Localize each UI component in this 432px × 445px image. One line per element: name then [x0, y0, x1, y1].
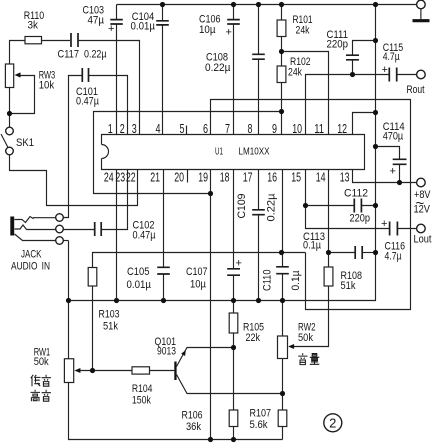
- svg-text:24: 24: [104, 171, 114, 185]
- wire: pin 24 to bus: [116, 170, 118, 301]
- pin numbers top row: [108, 122, 347, 136]
- svg-text:470µ: 470µ: [383, 131, 404, 143]
- wire: pin 15 to C116 Lout: [306, 170, 417, 229]
- resistor R110: [24, 10, 45, 44]
- svg-text:50k: 50k: [298, 332, 313, 344]
- wire: pin 21 through C105 to bus: [163, 170, 165, 301]
- svg-text:14: 14: [316, 171, 326, 185]
- IC U1 LM10XX body with notch: [102, 135, 365, 170]
- svg-text:6: 6: [203, 122, 208, 136]
- transistor Q101 9013: [155, 336, 186, 380]
- capacitor C114 electrolytic: [383, 121, 407, 178]
- svg-text:0.22µ: 0.22µ: [266, 193, 278, 222]
- wire: pin 14 through C113 node to R108: [328, 170, 330, 268]
- wire: input line RW3 top to R110 to C117 to pin 3: [10, 41, 140, 135]
- node C111 V-line: [373, 38, 378, 43]
- potentiometer RW2: [278, 322, 316, 359]
- svg-text:51k: 51k: [103, 321, 118, 333]
- node pin 19 bottom rail: [208, 437, 213, 442]
- svg-text:LM10XX: LM10XX: [239, 147, 270, 158]
- svg-text:7: 7: [225, 122, 230, 136]
- svg-text:+: +: [108, 23, 114, 35]
- wire: C101 right to pin 2: [89, 76, 128, 135]
- node Q101 collector R107: [280, 391, 285, 396]
- node C105 bus: [161, 298, 166, 303]
- svg-text:47µ: 47µ: [88, 15, 105, 27]
- wire: pin 23 to C102 to jack ring: [63, 170, 127, 230]
- svg-text:Rout: Rout: [407, 84, 425, 96]
- svg-text:12: 12: [337, 122, 347, 136]
- svg-text:R106: R106: [182, 410, 203, 422]
- svg-text:22k: 22k: [246, 332, 261, 344]
- wire: R101 R102 chain to pin 9: [281, 5, 283, 135]
- resistor R107: [250, 408, 287, 432]
- node C114 V-line: [373, 144, 378, 149]
- symbol circled 2: [324, 414, 342, 432]
- svg-text:2: 2: [120, 122, 125, 136]
- capacitor C105: [127, 266, 170, 291]
- svg-text:R104: R104: [132, 383, 153, 395]
- svg-text:10k: 10k: [39, 80, 55, 92]
- label 低音 bass: [31, 375, 51, 386]
- switch SK1: [1, 127, 34, 155]
- svg-text:11: 11: [314, 122, 324, 136]
- svg-text:10µ: 10µ: [199, 24, 216, 36]
- capacitor C102: [95, 220, 156, 242]
- svg-text:18: 18: [220, 171, 230, 185]
- node pin 12 V-line: [373, 110, 378, 115]
- svg-text:SK1: SK1: [16, 137, 34, 149]
- svg-text:2: 2: [329, 416, 336, 431]
- pin 20 stub: [187, 170, 189, 183]
- svg-text:50k: 50k: [34, 356, 49, 368]
- svg-text:+: +: [382, 64, 388, 76]
- svg-text:36k: 36k: [186, 421, 201, 433]
- wire: pin 16 C110 RW2 R107 chain: [282, 170, 284, 440]
- svg-text:8: 8: [248, 122, 253, 136]
- potentiometer RW3: [5, 64, 55, 92]
- wire: C114 branch: [376, 147, 400, 183]
- node C107 R105 bus: [231, 298, 236, 303]
- wire: R103 top feedback line to loop corner: [93, 253, 306, 268]
- svg-text:16: 16: [267, 171, 277, 185]
- svg-text:0.01µ: 0.01µ: [131, 21, 156, 33]
- node R103 R104 wiper: [90, 368, 95, 373]
- svg-text:+: +: [236, 258, 242, 270]
- resistor R108: [324, 267, 362, 292]
- svg-text:R103: R103: [99, 309, 120, 321]
- svg-text:4: 4: [156, 122, 161, 136]
- svg-text:3: 3: [132, 122, 137, 136]
- resistor R106: [182, 410, 238, 434]
- svg-text:51k: 51k: [341, 280, 356, 292]
- wire: C112 line pin15 to vertical rail: [306, 205, 376, 207]
- svg-text:23: 23: [115, 171, 125, 185]
- svg-text:0.47µ: 0.47µ: [133, 230, 157, 242]
- wire: C103 to pin 1: [116, 5, 118, 135]
- svg-text:0.1µ: 0.1µ: [290, 270, 302, 291]
- node Q101 emitter R105 R106: [231, 345, 236, 350]
- capacitor C108: [205, 52, 265, 75]
- capacitor C103 electrolytic: [83, 5, 123, 36]
- capacitor C109 vertical labels: [236, 193, 278, 222]
- svg-text:C107: C107: [186, 266, 208, 278]
- pin 5 stub: [186, 126, 188, 135]
- svg-text:C112: C112: [344, 188, 368, 200]
- node C112 V-line: [373, 203, 378, 208]
- terminal Rout: [407, 70, 426, 96]
- svg-text:U1: U1: [215, 147, 223, 158]
- wire: C101 left to jack tip contact: [63, 76, 82, 218]
- wire: pin 9 feedback line to pin 19: [94, 112, 282, 194]
- node R101 R102 junction: [279, 49, 284, 54]
- node pin 19 feedback: [208, 191, 213, 196]
- wire: RW3 bottom to SK1: [9, 88, 11, 128]
- svg-text:4.7µ: 4.7µ: [383, 51, 401, 63]
- svg-text:C117: C117: [58, 49, 80, 61]
- svg-text:24k: 24k: [288, 67, 302, 79]
- svg-text:22: 22: [126, 171, 136, 185]
- capacitor C113: [303, 231, 362, 259]
- svg-text:150k: 150k: [132, 395, 151, 407]
- svg-text:19: 19: [198, 171, 208, 185]
- svg-text:5.6k: 5.6k: [250, 419, 268, 431]
- node C106 top rail: [231, 2, 236, 7]
- svg-text:C109: C109: [236, 194, 248, 219]
- svg-text:13: 13: [340, 171, 350, 185]
- node V-line top rail: [373, 2, 378, 7]
- wire: pin 6 big loop to C113 node: [211, 100, 411, 310]
- wire: jack sleeve down to bus and RW1: [15, 234, 69, 359]
- wire: pin 12 to vertical rail: [353, 113, 376, 135]
- wire: main vertical rail x376 and bus y300: [69, 5, 376, 301]
- svg-text:0.01µ: 0.01µ: [127, 279, 152, 291]
- node C113 V-line: [373, 250, 378, 255]
- jack AUDIO IN: [10, 214, 63, 273]
- resistor R105: [229, 313, 264, 344]
- capacitor C107 electrolytic: [186, 258, 242, 291]
- svg-text:10µ: 10µ: [190, 279, 207, 291]
- wire: R101 R102 junction to pin 11: [282, 52, 329, 135]
- svg-text:C110: C110: [262, 270, 274, 292]
- svg-text:JACK: JACK: [21, 249, 42, 261]
- svg-text:21: 21: [150, 171, 160, 185]
- svg-text:12V: 12V: [414, 204, 431, 216]
- resistor R102: [277, 56, 310, 83]
- node pin 16 feedback line: [279, 250, 284, 255]
- svg-text:9013: 9013: [157, 346, 176, 358]
- svg-text:5: 5: [180, 122, 185, 136]
- wire: C106 to pin 7: [233, 5, 235, 135]
- capacitor C115 electrolytic: [382, 42, 404, 82]
- svg-text:24k: 24k: [296, 25, 310, 37]
- svg-text:+: +: [390, 166, 396, 178]
- svg-text:9: 9: [272, 122, 277, 136]
- node C114 +8V line: [397, 180, 402, 185]
- svg-text:4.7µ: 4.7µ: [385, 251, 403, 263]
- svg-text:220p: 220p: [350, 213, 371, 225]
- resistor R101: [277, 14, 312, 37]
- svg-text:20: 20: [174, 171, 184, 185]
- node pin 15 C112: [303, 203, 308, 208]
- node pin 24 bus: [114, 298, 119, 303]
- wire: SK1 to pin 22: [10, 155, 138, 206]
- svg-text:R107: R107: [250, 408, 272, 420]
- node R101 top rail: [279, 2, 284, 7]
- svg-text:0.1µ: 0.1µ: [303, 240, 322, 252]
- capacitor C111: [327, 29, 360, 60]
- node C108 top rail: [256, 2, 261, 7]
- label 高音 treble: [31, 390, 51, 401]
- wire: RW2 wiper to R108 bottom: [293, 286, 329, 347]
- svg-text:Lout: Lout: [414, 234, 432, 246]
- wire: C113 left from pin14 node: [329, 252, 355, 254]
- svg-text:+: +: [381, 218, 387, 230]
- wire: RW1 wiper to R104 to Q101 base: [80, 370, 175, 372]
- terminal Lout: [414, 224, 432, 245]
- pin numbers bottom row: [104, 171, 350, 185]
- svg-text:15: 15: [291, 171, 301, 185]
- node R106 bottom rail: [231, 437, 236, 442]
- svg-text:AUDIO IN: AUDIO IN: [11, 261, 50, 273]
- capacitor C117: [58, 33, 108, 61]
- svg-text:0.22µ: 0.22µ: [84, 49, 107, 61]
- wire: pin 17 through C109 to bus: [258, 170, 260, 301]
- wire: pin 19 down to bottom rail: [210, 170, 212, 440]
- potentiometer RW1: [34, 347, 81, 383]
- wire: RW3 wiper return loop: [10, 76, 35, 114]
- wire: R103 bottom to wiper junction: [92, 287, 94, 371]
- svg-text:C105: C105: [127, 266, 150, 278]
- wire: Q101 emitter line: [177, 348, 234, 367]
- wire: Q101 collector line: [177, 375, 283, 394]
- terminal ground top right: [413, 0, 430, 21]
- capacitor C106 electrolytic: [199, 14, 240, 39]
- terminal +8V 12V: [414, 178, 432, 215]
- resistor R104: [132, 367, 153, 407]
- wire: pin 13 to +8V terminal: [353, 170, 417, 183]
- svg-text:0.22µ: 0.22µ: [205, 62, 231, 74]
- capacitor C104: [131, 11, 169, 33]
- wire: pin 18 C107 R105 R106 chain: [233, 170, 235, 440]
- svg-text:0.47µ: 0.47µ: [76, 96, 100, 108]
- wire: top supply rail: [117, 4, 417, 6]
- wire: pin 10 to C111 node and C115 to Rout: [306, 75, 417, 135]
- node C109 bus: [256, 298, 261, 303]
- svg-text:220p: 220p: [327, 39, 349, 51]
- node C110 RW2 bus: [280, 298, 285, 303]
- node pin 14 C113 R108: [326, 250, 331, 255]
- node: RW3 bottom junction: [7, 111, 12, 116]
- svg-text:1: 1: [108, 122, 113, 136]
- wire: C104 to pin 4: [162, 5, 164, 135]
- capacitor C110 vertical labels: [262, 267, 302, 291]
- node jack sleeve bus: [66, 298, 71, 303]
- svg-text:10: 10: [292, 122, 302, 136]
- svg-text:17: 17: [243, 171, 253, 185]
- node pin 9 feedback: [279, 109, 284, 114]
- wire: C113 right to V line: [363, 252, 376, 254]
- svg-text:+: +: [226, 27, 232, 39]
- node C104 top rail: [160, 2, 165, 7]
- capacitor C112: [344, 188, 370, 225]
- capacitor C116 electrolytic: [381, 218, 405, 263]
- wire: RW1 bottom and bottom rail: [69, 383, 283, 440]
- wire: jack sleeve contact lead: [63, 240, 68, 242]
- wire: C111 branch: [353, 41, 376, 75]
- node C111 C115 pin 10: [350, 72, 355, 77]
- label 音量 volume: [298, 353, 319, 364]
- capacitor C101: [76, 68, 100, 108]
- wire: C108 to pin 8: [258, 5, 260, 135]
- resistor R103: [88, 268, 119, 333]
- svg-text:3k: 3k: [28, 20, 39, 32]
